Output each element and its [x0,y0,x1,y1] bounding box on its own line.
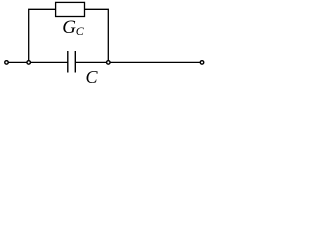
svg-text:C: C [86,67,99,87]
svg-text:G: G [62,17,76,38]
svg-text:C: C [76,24,85,38]
